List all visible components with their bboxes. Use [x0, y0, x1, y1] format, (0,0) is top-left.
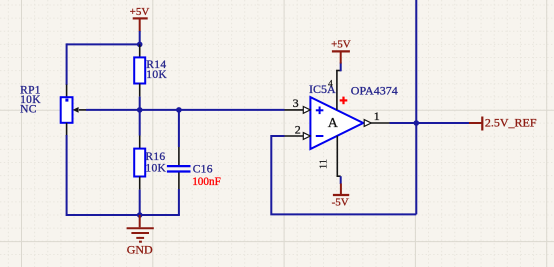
ground GND: [127, 215, 154, 256]
node junction mid-right: [176, 107, 182, 113]
svg-text:A: A: [328, 116, 339, 131]
svg-text:-5V: -5V: [332, 196, 349, 208]
wire: R16 bottom: [139, 190, 141, 215]
svg-text:10K: 10K: [146, 69, 167, 81]
wire: pin4 to +5V: [340, 63, 342, 72]
svg-text:C16: C16: [193, 163, 213, 175]
svg-text:100nF: 100nF: [192, 176, 221, 188]
svg-text:+5V: +5V: [331, 38, 351, 50]
node junction output: [414, 120, 420, 126]
wire: left vertical to RP1: [66, 43, 68, 85]
pin 11 (V-): [319, 136, 341, 177]
power -5V: [332, 184, 350, 209]
pin 2: [285, 123, 311, 140]
power +5V (op-amp): [331, 38, 351, 63]
pin 4 (V+): [328, 71, 347, 111]
node junction bottom: [137, 212, 143, 218]
wire: middle horizontal: [86, 109, 285, 111]
wire: C16 branch top: [178, 110, 180, 147]
svg-text:10K: 10K: [145, 162, 166, 174]
svg-text:4: 4: [328, 79, 333, 89]
wire: left bottom rail: [67, 135, 179, 215]
wire: right vertical: [415, 0, 417, 214]
wire: output: [390, 122, 470, 124]
svg-text:11: 11: [319, 159, 330, 169]
pin 3: [285, 96, 311, 113]
svg-text:3: 3: [293, 96, 299, 110]
potentiometer RP1: [20, 84, 86, 136]
wire: R14 bottom to mid rail: [139, 97, 141, 111]
svg-text:OPA4374: OPA4374: [351, 83, 398, 97]
port 2.5V_REF: [469, 116, 537, 131]
node junction top: [137, 42, 143, 48]
wire: top horizontal: [67, 43, 140, 45]
wire: +5V stem to junction: [139, 31, 141, 44]
svg-text:+5V: +5V: [130, 6, 150, 18]
svg-text:1: 1: [374, 109, 380, 123]
capacitor C16: [167, 147, 221, 189]
wire: pin11 to -5V: [340, 176, 342, 184]
svg-text:GND: GND: [127, 242, 153, 256]
resistor R16: [134, 136, 166, 190]
svg-text:R16: R16: [145, 151, 165, 163]
resistor R14: [134, 44, 167, 96]
svg-text:2.5V_REF: 2.5V_REF: [485, 116, 537, 130]
wire: C16 bottom: [178, 189, 180, 215]
svg-text:2: 2: [295, 123, 301, 137]
node junction mid-left: [137, 107, 143, 113]
svg-text:NC: NC: [20, 103, 37, 115]
wire: feedback loop: [271, 136, 416, 214]
op-amp IC5A: [309, 82, 398, 149]
pin 1: [364, 109, 390, 127]
wire: R16 branch top: [139, 110, 141, 136]
power +5V (top): [130, 6, 150, 32]
